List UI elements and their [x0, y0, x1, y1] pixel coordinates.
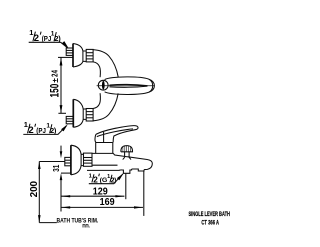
svg-text:mm.: mm.: [82, 224, 89, 230]
svg-text:31: 31: [52, 164, 61, 171]
svg-text:169: 169: [100, 196, 115, 208]
svg-text:24: 24: [51, 70, 60, 77]
svg-text:±: ±: [50, 78, 60, 83]
svg-text:CT 366 A: CT 366 A: [201, 220, 219, 227]
svg-text:): ): [54, 126, 57, 135]
svg-text:150: 150: [47, 83, 61, 97]
svg-text:(PJ: (PJ: [36, 126, 46, 135]
svg-text:): ): [58, 34, 61, 43]
svg-text:): ): [114, 177, 116, 184]
svg-text:2: 2: [93, 175, 98, 184]
svg-text:BATH TUB'S RIM.: BATH TUB'S RIM.: [57, 217, 99, 224]
svg-text:1: 1: [89, 174, 93, 180]
svg-text:200: 200: [29, 181, 40, 198]
svg-text:SINGLE LEVER BATH: SINGLE LEVER BATH: [188, 211, 230, 218]
svg-text:1: 1: [29, 28, 33, 37]
svg-text:1: 1: [24, 120, 28, 129]
